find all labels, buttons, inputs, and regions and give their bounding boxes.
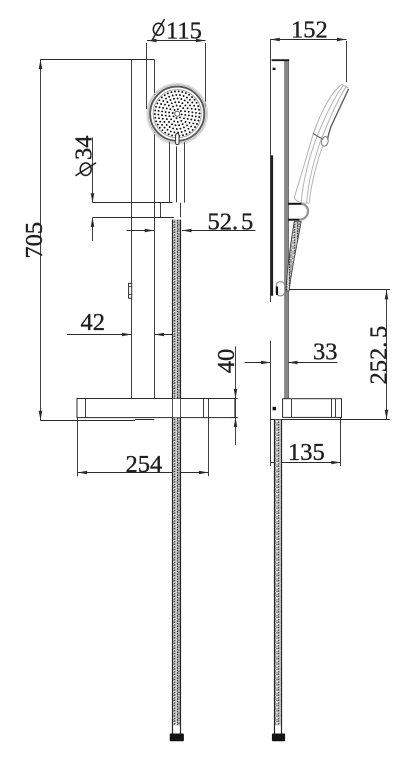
svg-text:5: 5 — [365, 326, 392, 338]
svg-text:34: 34 — [71, 136, 98, 161]
svg-text:42: 42 — [81, 309, 106, 336]
svg-text:5: 5 — [241, 208, 253, 235]
svg-text:705: 705 — [21, 222, 48, 259]
svg-text:52.: 52. — [208, 208, 239, 235]
svg-text:152: 152 — [291, 16, 328, 43]
svg-text:33: 33 — [313, 338, 338, 365]
svg-text:254: 254 — [126, 451, 163, 478]
svg-text:40: 40 — [213, 349, 240, 374]
svg-text:115: 115 — [166, 18, 202, 45]
svg-text:252.: 252. — [365, 342, 392, 385]
svg-text:135: 135 — [288, 439, 325, 466]
